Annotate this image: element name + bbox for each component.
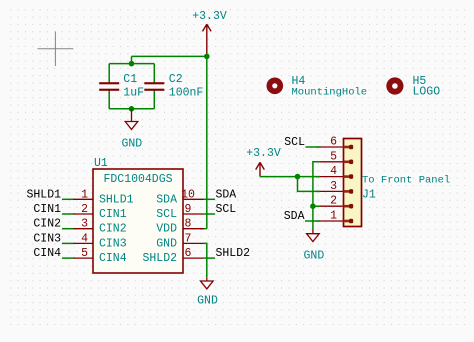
svg-text:VDD: VDD <box>156 223 177 236</box>
wire SCL to pin6 <box>306 146 321 148</box>
pin 1 SHLD1 <box>74 188 94 201</box>
svg-text:+3.3V: +3.3V <box>246 147 281 160</box>
svg-text:CIN1: CIN1 <box>99 208 127 221</box>
wire SHLD2 <box>204 257 216 259</box>
power symbol +3.3V (top) <box>203 24 212 56</box>
svg-text:100nF: 100nF <box>169 87 204 100</box>
junction at +3.3V vertical <box>204 54 210 60</box>
capacitor C1 <box>99 82 119 91</box>
svg-text:8: 8 <box>185 218 192 231</box>
svg-text:CIN2: CIN2 <box>99 223 127 236</box>
svg-text:6: 6 <box>185 247 192 260</box>
svg-text:CIN4: CIN4 <box>99 252 127 265</box>
svg-text:3: 3 <box>330 180 337 193</box>
svg-text:LOGO: LOGO <box>413 85 441 98</box>
svg-text:SCL: SCL <box>284 136 305 149</box>
pin 4 J1 <box>316 165 353 179</box>
svg-text:GND: GND <box>197 295 218 308</box>
junction cap top <box>129 61 135 67</box>
pin 6 SHLD2 <box>183 247 204 260</box>
wire +3.3V to pin4 <box>260 176 320 178</box>
pin 6 J1 <box>316 136 353 150</box>
svg-text:CIN4: CIN4 <box>33 247 61 260</box>
pin 1 J1 <box>316 210 353 224</box>
svg-text:CIN1: CIN1 <box>33 203 61 216</box>
svg-text:7: 7 <box>185 232 192 245</box>
svg-text:SHLD1: SHLD1 <box>99 193 134 206</box>
logo H5 <box>386 77 403 94</box>
svg-text:To Front Panel: To Front Panel <box>362 175 450 187</box>
wire pin7 to ground <box>204 243 207 277</box>
wire capacitor top rail <box>109 63 154 65</box>
crosshair origin marker <box>38 32 74 67</box>
ground symbol below capacitors <box>125 109 138 130</box>
svg-text:U1: U1 <box>94 157 108 170</box>
svg-text:SDA: SDA <box>156 193 177 206</box>
svg-text:SCL: SCL <box>216 203 237 216</box>
svg-text:SCL: SCL <box>156 208 177 221</box>
svg-text:2: 2 <box>81 203 88 216</box>
power symbol +3.3V (J1) <box>256 162 265 176</box>
wire stubs to left labels <box>62 199 75 258</box>
ground symbol (U1 pin7) <box>201 278 214 289</box>
svg-text:1uF: 1uF <box>123 87 144 100</box>
wire SCL <box>204 213 216 215</box>
pin 5 CIN4 <box>74 247 94 260</box>
pin 10 SDA <box>181 188 203 201</box>
wire pin5 to ground rail <box>313 162 320 229</box>
pin 5 J1 <box>316 150 353 164</box>
svg-text:J1: J1 <box>362 188 376 201</box>
wire from +3.3V to capacitors <box>132 56 207 63</box>
capacitor C2 <box>144 82 164 91</box>
pin 2 CIN1 <box>74 203 94 216</box>
wire pin2 tap <box>313 205 320 207</box>
pin 2 J1 <box>316 195 353 209</box>
svg-text:SHLD1: SHLD1 <box>26 188 61 201</box>
svg-text:C1: C1 <box>123 73 137 86</box>
junction pin2/gnd rail <box>310 203 316 209</box>
svg-text:CIN3: CIN3 <box>99 237 127 250</box>
op IC U1 FDC1004DGS body <box>93 169 183 273</box>
svg-text:9: 9 <box>185 203 192 216</box>
svg-text:CIN2: CIN2 <box>33 218 61 231</box>
svg-text:C2: C2 <box>169 73 183 86</box>
svg-text:GND: GND <box>304 250 325 263</box>
pin 3 CIN2 <box>74 218 94 231</box>
wire SDA to pin1 <box>305 220 320 222</box>
svg-text:3: 3 <box>81 218 88 231</box>
svg-text:MountingHole: MountingHole <box>292 86 368 98</box>
connector J1 body <box>344 139 362 227</box>
svg-text:+3.3V: +3.3V <box>192 10 227 23</box>
junction cap bottom <box>129 106 135 112</box>
pin 9 SCL <box>183 203 204 216</box>
svg-text:2: 2 <box>330 195 337 208</box>
pin 7 GND <box>183 232 204 245</box>
svg-text:GND: GND <box>156 237 177 250</box>
wire SDA <box>204 198 216 200</box>
pin 4 CIN3 <box>74 232 94 245</box>
wire C1 leads <box>108 64 110 109</box>
svg-text:1: 1 <box>81 188 88 201</box>
svg-text:5: 5 <box>81 247 88 260</box>
svg-text:FDC1004DGS: FDC1004DGS <box>103 173 172 186</box>
svg-text:10: 10 <box>181 188 195 201</box>
svg-text:SDA: SDA <box>284 210 305 223</box>
svg-text:SDA: SDA <box>216 188 237 201</box>
wire main +3.3V vertical to VDD <box>206 56 208 228</box>
svg-text:4: 4 <box>81 232 88 245</box>
svg-text:CIN3: CIN3 <box>33 232 61 245</box>
svg-text:SHLD2: SHLD2 <box>216 247 251 260</box>
ground symbol (J1) <box>307 229 320 242</box>
mounting hole H4 <box>267 78 284 95</box>
svg-text:1: 1 <box>330 210 337 223</box>
svg-text:SHLD2: SHLD2 <box>142 252 177 265</box>
wire junction to pin3 <box>298 177 321 192</box>
pin 8 VDD <box>183 218 204 231</box>
svg-text:GND: GND <box>121 138 142 151</box>
wire C2 leads <box>153 64 155 109</box>
wire capacitor bottom rail <box>109 108 154 110</box>
svg-text:4: 4 <box>330 165 337 178</box>
junction +3.3V/pin3 <box>295 174 301 180</box>
svg-text:6: 6 <box>330 136 337 149</box>
pin 3 J1 <box>316 180 353 194</box>
svg-text:5: 5 <box>330 150 337 163</box>
